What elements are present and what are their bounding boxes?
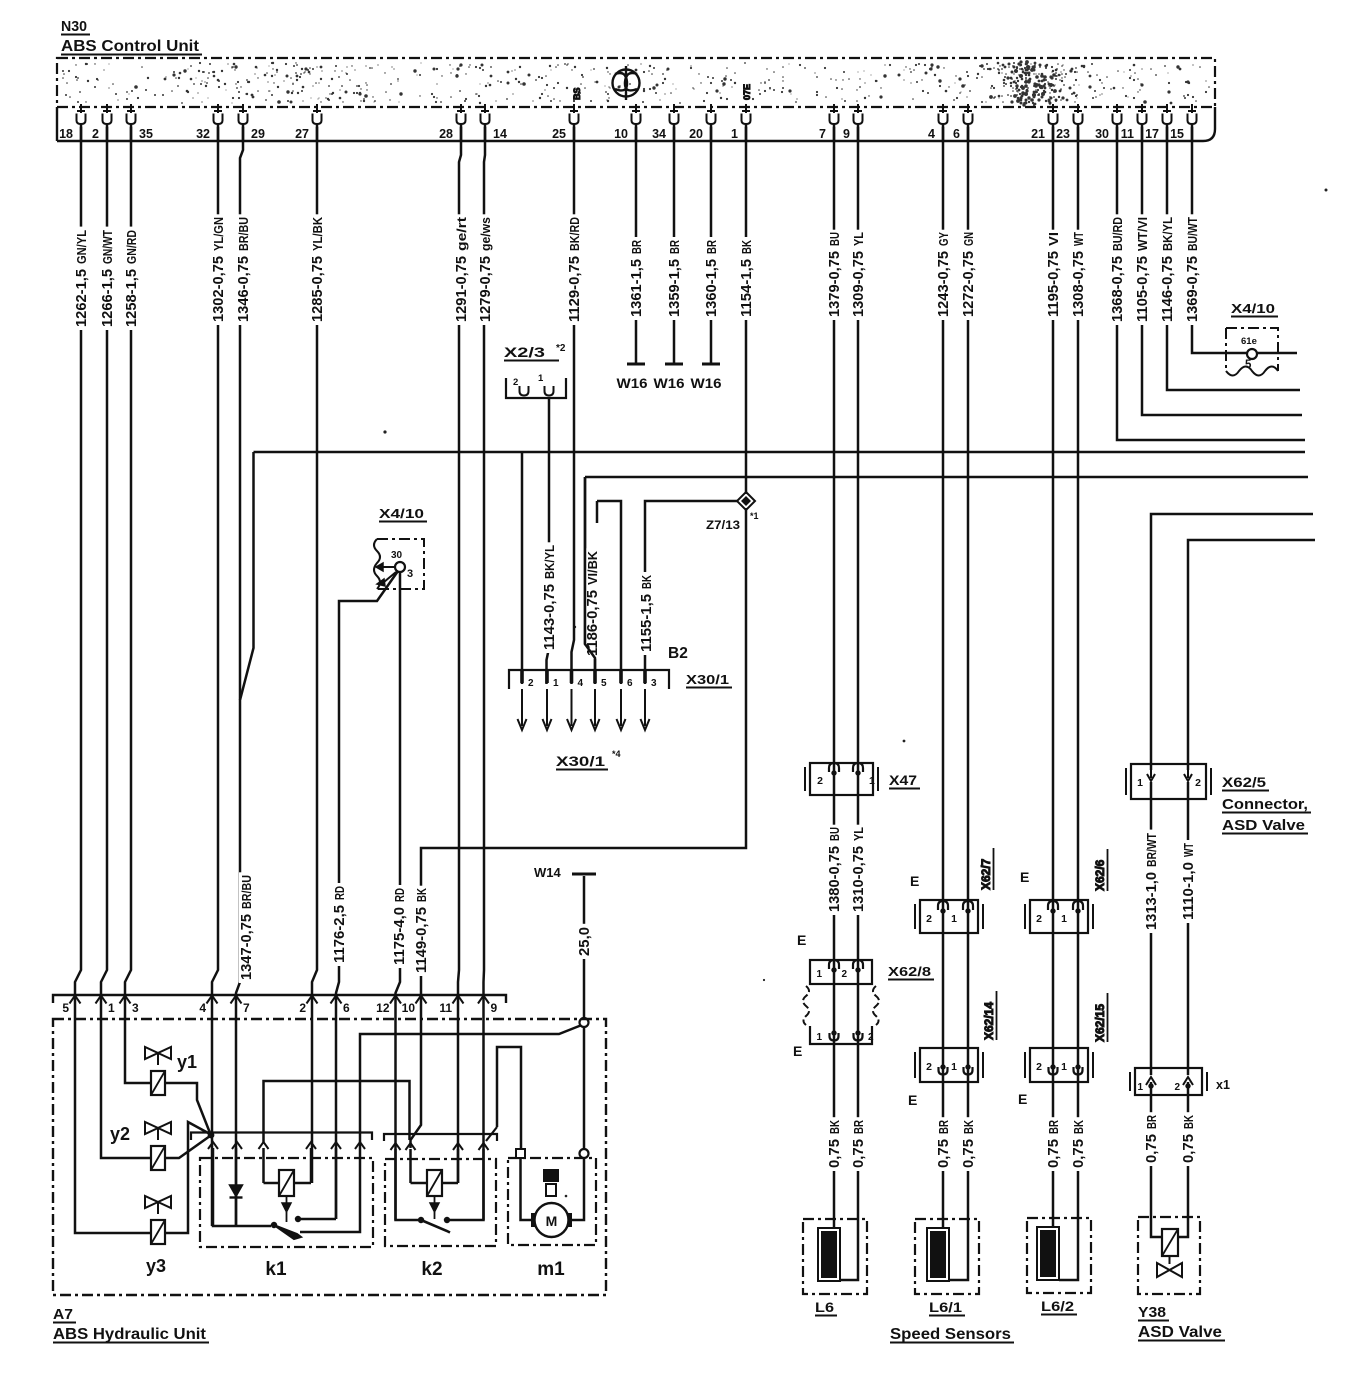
L6/2 coil element [1037,1227,1059,1280]
svg-text:2: 2 [1195,777,1201,789]
N30 pin 29 [239,104,247,113]
svg-text:3: 3 [132,1001,139,1015]
svg-text:34: 34 [652,127,666,141]
wire label 1379-0,75 BU [827,230,841,320]
wire label 0,75 BK (to Y38) [1181,1112,1195,1166]
svg-text:11: 11 [1121,127,1134,141]
k2 contact [418,1217,424,1223]
svg-text:1175-4,0: 1175-4,0 [391,907,408,965]
wire label 1155-1,5 BK [639,572,653,655]
svg-text:ABS Control Unit: ABS Control Unit [61,38,199,55]
svg-text:Z7/13: Z7/13 [706,518,740,532]
connector X62/8 lower [810,1026,872,1044]
svg-text:YL: YL [852,232,866,246]
node on A7 border [580,1018,589,1027]
svg-text:28: 28 [439,127,453,141]
A7 pin 11 [453,996,464,1004]
wire label 1361-1,5 BR [629,237,643,320]
svg-text:6: 6 [627,678,633,689]
wire label 1360-1,5 BR [704,237,718,320]
svg-text:VI: VI [1047,232,1061,246]
svg-text:35: 35 [139,127,153,141]
wire 1243-0,75 GY (N30:4 via X62/7, X62/14 to sensor L6/1) [942,127,945,1234]
svg-text:y1: y1 [177,1052,197,1072]
svg-text:1: 1 [951,1061,957,1073]
svg-text:2: 2 [926,1061,932,1073]
svg-text:YL/BK: YL/BK [311,217,325,251]
wire label 0,75 BR (to L6/1) [936,1117,950,1171]
N30 pin 1 [742,104,750,113]
relay k1 strip [191,1133,372,1141]
A7 pin 1 [96,996,107,1004]
svg-text:5: 5 [1245,359,1252,371]
svg-text:k2: k2 [421,1259,442,1280]
wire label 1359-1,5 BR [667,237,681,320]
Y38 solenoid coil [1162,1229,1178,1256]
wire 1309-0,75 YL (N30:9 via X47:1, X62/8 to sensor L6) [839,127,858,1280]
svg-text:0,75: 0,75 [1070,1139,1087,1168]
svg-text:WT: WT [1182,843,1196,857]
X62/7 pin 1 [963,901,973,910]
X30/1 pin 4 [570,671,574,683]
wire y1 right lead to fan [165,1083,210,1133]
wire y2 right lead to fan [165,1136,210,1158]
svg-text:X47: X47 [889,773,917,788]
wire label 25,0 [577,924,591,959]
svg-text:2: 2 [513,377,518,388]
svg-text:5: 5 [62,1001,69,1015]
wire label 1129-0,75 BK/RD [567,214,581,325]
svg-text:9: 9 [491,1001,498,1015]
wire label 1243-0,75 GY [936,230,950,320]
svg-text:11: 11 [439,1001,452,1015]
svg-text:9: 9 [843,127,850,141]
svg-text:E: E [910,873,919,889]
wire label 1258-1,5 GN/RD [124,227,138,330]
svg-text:1346-0,75: 1346-0,75 [235,256,252,322]
svg-text:BS: BS [572,87,582,100]
svg-text:0,75: 0,75 [960,1139,977,1168]
svg-text:1360-1,5: 1360-1,5 [703,259,720,317]
N30 pin 14 [481,104,489,113]
svg-text:X2/3: X2/3 [504,345,546,360]
k2 pin 4 [479,1143,489,1150]
k1 contact [271,1222,277,1228]
connector x1 [1130,1072,1207,1091]
wire label 1368-0,75 BU/RD [1110,214,1124,325]
svg-text:2: 2 [1174,1082,1180,1093]
X30/1 pin 5 [593,671,597,683]
wire y3 right lead to fan [165,1122,210,1233]
A7 housing box (dash-dot) [53,1019,606,1295]
svg-text:BU/RD: BU/RD [1111,217,1125,251]
label X62/6 (rotated) [1093,849,1108,891]
L6/1 coil element [927,1228,949,1281]
N30 pin 35 [127,104,135,113]
svg-text:4: 4 [199,1001,206,1015]
wire 1155-1,5 BK (Z7/13 to X30/1:3) [645,501,738,684]
X62/6 pin 1 [1073,901,1083,910]
X62/14 pin 1 [964,1067,973,1075]
m1 motor [531,1213,538,1227]
wire 1369-0,75 BU/WT (N30:15 via X4/10 61e to right) [1192,127,1297,353]
wire x1:1 to Y38 [1151,1082,1162,1237]
X62/7 pin 2 [938,901,948,910]
svg-text:X62/8: X62/8 [888,964,931,979]
svg-text:RD: RD [333,886,347,900]
k1 coil [262,1148,265,1183]
wire x1:2 to Y38 [1177,1082,1188,1237]
svg-text:L6/1: L6/1 [929,1300,963,1315]
X30/1 output arrow 5 [594,689,596,726]
svg-text:3: 3 [407,568,413,580]
k2 pin 1 [391,1143,401,1150]
k1 pin 3 [259,1142,269,1149]
wire 1262-1,5 GN/YL (N30:18 to A7:5, y3 valve) [75,127,151,1233]
svg-text:BR: BR [705,240,719,254]
svg-text:1368-0,75: 1368-0,75 [1109,256,1126,322]
wire label 1195-0,75 VI [1046,230,1060,320]
N30 pin 30 [1113,104,1121,113]
wire label 0,75 BK (to L6/2) [1071,1117,1085,1171]
k1 pin 2 [232,1142,242,1149]
wire label 1146-0,75 BK/YL [1160,214,1174,325]
logo symbol in N30 box [613,66,640,100]
svg-text:6: 6 [343,1001,350,1015]
svg-text:1258-1,5: 1258-1,5 [123,269,140,327]
svg-text:B2: B2 [668,645,688,662]
X4/10 terminal circle [395,562,405,572]
wire X30/1:2 branch [521,452,524,684]
speed sensor L6 box [803,1219,867,1294]
relay k2 box (dash-dot) [385,1159,496,1246]
svg-text:2: 2 [868,1032,874,1043]
A7 pin 6 [331,996,342,1004]
k2 armature arrow [434,1196,436,1203]
svg-text:1369-0,75: 1369-0,75 [1184,256,1201,322]
wire 1266-1,5 GN/WT (N30:2 to A7:1, y2 valve) [101,127,151,1158]
svg-text:WT: WT [1072,232,1086,246]
svg-text:WT/VI: WT/VI [1136,217,1150,251]
svg-text:*4: *4 [612,749,621,759]
svg-text:BK: BK [740,240,754,254]
wire 1195-0,75 VI (N30:21 via X62/6, X62/15 to sensor L6/2) [1052,127,1055,1234]
svg-text:1302-0,75: 1302-0,75 [210,256,227,322]
X62/5 pin 2 [1184,768,1192,781]
wire label 1309-0,75 YL [851,230,865,320]
svg-text:1: 1 [951,913,957,925]
svg-text:1: 1 [538,373,544,384]
svg-text:*1: *1 [750,511,759,521]
svg-text:BR: BR [630,240,644,254]
wire label 0,75 BR (to L6) [851,1117,865,1171]
N30 pin strip box [57,107,1215,141]
svg-text:2: 2 [528,678,534,689]
wire 1154-1,5 BK (N30:1 to Z7/13) [745,127,748,494]
svg-text:1: 1 [1061,913,1067,925]
X47 pin 2 [829,763,839,772]
wire W14 node to m1 [583,1027,586,1152]
m1 right terminal [580,1149,589,1158]
A7 pin 9 [478,996,489,1004]
A7 pin 7 [231,996,242,1004]
svg-text:N30: N30 [61,19,87,35]
ground W16 (1) [627,363,645,366]
svg-text:1359-1,5: 1359-1,5 [666,259,683,317]
svg-text:0,75: 0,75 [850,1139,867,1168]
wire label 1175-4,0 RD [392,885,406,968]
label X62/7 (rotated) [979,848,994,890]
svg-text:BK: BK [828,1120,842,1134]
wire 1347-0,75 BR/BU (bus to A7:7, k1 pin2) [236,452,254,1226]
solenoid valve y2 [145,1122,171,1134]
svg-text:1361-1,5: 1361-1,5 [628,259,645,317]
motor m1 box (dash-dot) [508,1158,596,1245]
stray scan specks [383,189,1327,1198]
svg-text:07E: 07E [742,84,752,100]
N30 pin 21 [1049,104,1057,113]
svg-text:Speed Sensors: Speed Sensors [890,1326,1011,1343]
wire label 1291-0,75 ge/rt [454,214,468,325]
k1 armature arrow [286,1196,288,1203]
svg-text:ge/rt: ge/rt [455,216,469,251]
svg-text:BK: BK [640,575,654,589]
svg-text:2: 2 [92,127,99,141]
N30 pin 34 [670,104,678,113]
svg-text:Y38: Y38 [1138,1305,1166,1321]
X2/3 pin 1 [545,386,554,396]
wire 1379-0,75 BU (N30:7 via X47:2, X62/8 to sensor L6) [833,127,836,1234]
svg-text:0,75: 0,75 [1143,1134,1160,1163]
speed sensor L6/2 box [1027,1218,1091,1293]
svg-text:21: 21 [1031,127,1045,141]
wire 1186 restroke [585,477,595,684]
svg-text:X30/1: X30/1 [686,673,729,687]
svg-text:7: 7 [243,1001,250,1015]
A7 pin 12 [390,996,401,1004]
wire X30/1:6 stub hook [597,501,621,684]
svg-text:1: 1 [869,775,875,787]
svg-text:Connector,: Connector, [1222,796,1308,813]
X62/6 pin 2 [1048,901,1058,910]
wire label 1176-2,5 RD [332,883,346,966]
wire label 0,75 BR (to Y38) [1144,1112,1158,1166]
wire 1302-0,75 YL/GN (N30:32 to A7:4, k1 pin1) [212,127,218,1226]
N30 pin 15 [1188,104,1196,113]
N30 pin 10 [632,104,640,113]
X30/1 output arrow 3 [644,689,646,726]
svg-text:2: 2 [1036,1061,1042,1073]
svg-text:X30/1: X30/1 [556,754,606,769]
svg-text:GN/RD: GN/RD [125,230,139,264]
A7 pin 5 [70,996,81,1004]
wire 1346-0,75 BR/BU (N30:29 to bus) [240,127,243,700]
svg-text:3: 3 [651,678,657,689]
svg-text:BK: BK [1072,1120,1086,1134]
connector X62/7 [915,904,983,929]
wire label 1105-0,75 WT/VI [1135,214,1149,325]
wire label 1149-0,75 BK [414,886,428,976]
svg-text:1154-1,5: 1154-1,5 [738,259,755,317]
svg-text:25: 25 [552,127,566,141]
N30 pin 32 [214,104,222,113]
svg-text:y3: y3 [146,1256,166,1276]
wire 1176-2,5 RD (X4/10 to A7:6, k1 contact) [336,571,398,1219]
k1 pin 6 [355,1142,365,1149]
wire label 1279-0,75 ge/ws [478,214,492,325]
wire label 1110-1,0 WT [1181,840,1195,923]
svg-text:20: 20 [689,127,703,141]
svg-text:0,75: 0,75 [1045,1139,1062,1168]
wire 1285-0,75 YL/BK (N30:27 to A7:2, k1 coil) [312,127,317,1183]
svg-text:1: 1 [1137,777,1143,789]
A7 pin 2 [307,996,318,1004]
A7 connector strip [53,995,506,1003]
svg-text:1: 1 [553,678,559,689]
svg-text:5: 5 [601,678,607,689]
svg-text:61e: 61e [1241,336,1257,347]
m1 wiring [521,1158,534,1220]
svg-text:1310-0,75: 1310-0,75 [850,846,867,912]
arrow 2 [377,579,385,586]
wire 1146-0,75 BK/YL (N30:17 to right) [1167,127,1300,390]
svg-text:1105-0,75: 1105-0,75 [1134,256,1151,322]
svg-text:25,0: 25,0 [576,927,593,956]
svg-text:X62/7: X62/7 [979,858,993,890]
svg-text:1129-0,75: 1129-0,75 [566,256,583,322]
svg-text:1146-0,75: 1146-0,75 [1159,256,1176,322]
svg-text:k1: k1 [265,1259,287,1280]
X30/1 pin 2 [520,671,524,683]
k2 pin 3 [453,1143,463,1150]
wire 1105-0,75 WT/VI (N30:11 to right) [1142,127,1302,415]
k2 coil [409,1149,412,1183]
solenoid valve y3 [145,1196,171,1208]
X62/8 pin 1 [829,960,839,969]
solenoid valve y1 [145,1047,171,1059]
wire 1291-0,75 ge/rt (N30:28 to A7:11, k2 coil) [458,127,461,1183]
svg-text:A7: A7 [53,1307,73,1323]
svg-text:1266-1,5: 1266-1,5 [99,269,116,327]
N30 pin 11 [1138,104,1146,113]
svg-text:1379-0,75: 1379-0,75 [826,251,843,317]
X62/8 pin 2 [853,960,863,969]
N30 pin 27 [313,104,321,113]
svg-text:BK/YL: BK/YL [1161,217,1175,251]
label X62/14 (rotated) [982,991,997,1040]
svg-text:ge/ws: ge/ws [479,217,493,251]
svg-text:14: 14 [493,127,507,141]
relay k1 box (dash-dot) [200,1158,373,1247]
k1 fixed contact to pin5 [298,1218,336,1221]
bus wire to X30/1:5 and right edge [585,476,1308,479]
wire label 1143-0,75 BK/YL [542,542,556,653]
wire 0,75 BR (X62/5:1 to x1:1) [1150,782,1153,1075]
wire label 1347-0,75 BR/BU [239,872,253,983]
wire 1313-1,0 BR/WT (right edge to X62/5:1) [1151,514,1313,770]
svg-text:L6/2: L6/2 [1041,1299,1074,1314]
svg-text:BU/WT: BU/WT [1186,217,1200,251]
Y38 valve bowtie [1169,1256,1171,1264]
wire 1360-1,5 BR (N30:20 to W16) [710,127,713,363]
N30 pin 28 [457,104,465,113]
svg-text:BR: BR [1047,1120,1061,1134]
svg-text:27: 27 [295,127,309,141]
N30 pin 6 [964,104,972,113]
svg-text:2: 2 [817,775,823,787]
svg-text:BU: BU [828,827,842,841]
svg-text:29: 29 [251,127,265,141]
svg-text:E: E [797,932,806,948]
svg-text:ABS Hydraulic Unit: ABS Hydraulic Unit [53,1326,206,1343]
svg-text:BR/BU: BR/BU [240,875,254,909]
bus wire to X30/1:2 and right edge [254,451,1306,454]
wire 1359-1,5 BR (N30:34 to W16) [673,127,676,363]
svg-text:1: 1 [816,969,822,980]
svg-text:GN/YL: GN/YL [75,230,89,264]
k2 pin 2 [406,1143,416,1150]
svg-text:30: 30 [1095,127,1109,141]
wire 0,75 BK (X62/5:2 to x1:2) [1187,782,1190,1075]
svg-text:BR: BR [852,1120,866,1134]
ASD valve Y38 box [1138,1217,1200,1294]
svg-text:GN/WT: GN/WT [101,230,115,264]
N30 pin 23 [1074,104,1082,113]
wire 1272-0,75 GN (N30:6 via X62/7, X62/14 to sensor L6/1) [949,127,968,1280]
svg-text:1: 1 [731,127,738,141]
svg-text:W16: W16 [691,376,723,391]
fan junction dot [208,1132,215,1139]
svg-text:y2: y2 [110,1124,130,1144]
wire 1368-0,75 BU/RD (N30:30 to right) [1117,127,1305,440]
svg-text:1110-1,0: 1110-1,0 [1180,862,1197,920]
wire label 1302-0,75 YL/GN [211,214,225,325]
svg-text:1262-1,5: 1262-1,5 [73,269,90,327]
svg-text:1272-0,75: 1272-0,75 [960,251,977,317]
connector X62/15 [1025,1052,1093,1078]
arrow to terminal 30 [382,566,395,568]
svg-text:W16: W16 [617,376,649,391]
k1 pin6 wire drawn with W14 branch [359,1148,361,1158]
k1 pin 1 [208,1142,218,1149]
svg-text:15: 15 [1170,127,1184,141]
svg-text:1143-0,75: 1143-0,75 [541,584,558,650]
N30 control unit box (hatched, dash-dot) [57,58,1215,107]
svg-text:W14: W14 [534,865,562,880]
svg-text:BK: BK [1182,1115,1196,1129]
wire 1279-0,75 ge/ws (N30:14 to A7:9, k2 contact) [484,127,486,1220]
svg-text:BU: BU [828,232,842,246]
X62/15 pin 2 [1049,1067,1058,1075]
svg-text:1380-0,75: 1380-0,75 [826,846,843,912]
svg-text:GY: GY [937,231,951,246]
k2 pin4 wire to fixed contact [447,1149,484,1220]
svg-text:10: 10 [402,1001,416,1015]
splice Z7/13 [737,492,755,510]
wire label 0,75 BR (to L6/2) [1046,1117,1060,1171]
wire label 1308-0,75 WT [1071,230,1085,320]
connector X62/8 upper [810,960,872,984]
k1 pin1 wire to rail / bottom rail [213,1148,271,1226]
svg-text:0,75: 0,75 [826,1139,843,1168]
wire label 1380-0,75 BU [827,825,841,915]
svg-text:BK: BK [415,888,429,902]
N30 pin 18 [77,104,85,113]
m1 feed loop from k2 pin4 [497,1047,521,1149]
X47 pin 1 [853,763,863,772]
L6 coil element [818,1228,840,1281]
connector X62/5 [1126,768,1211,795]
